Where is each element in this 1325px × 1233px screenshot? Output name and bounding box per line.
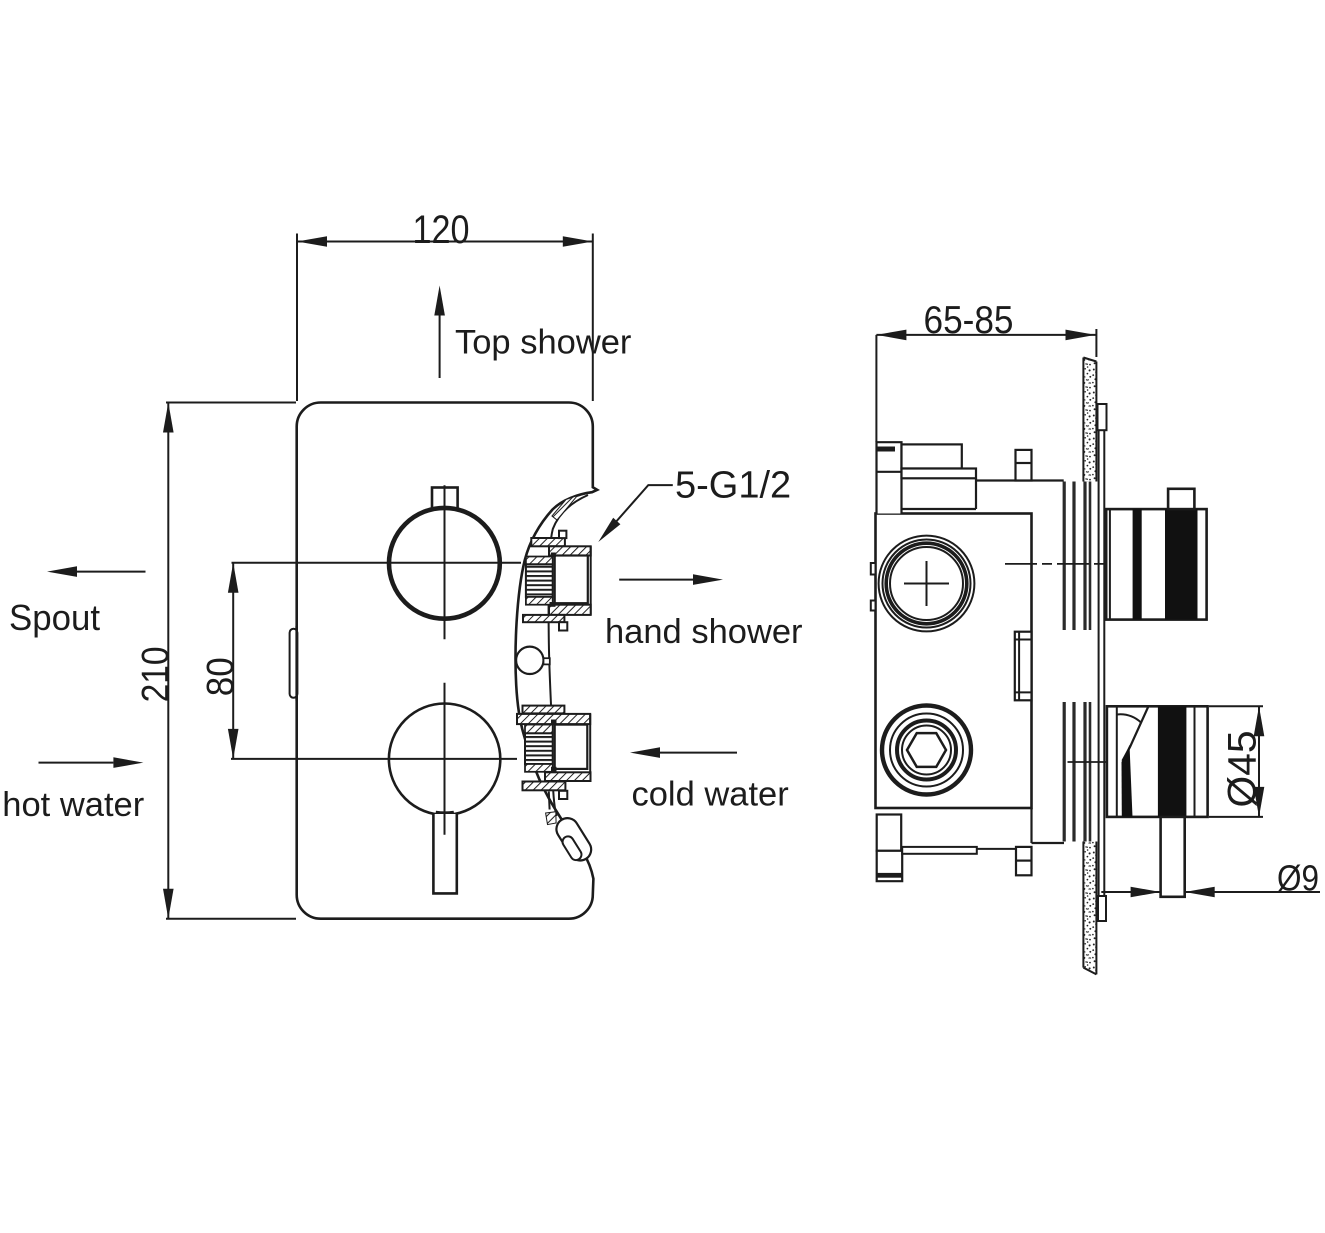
section hatch patch top [552, 496, 578, 521]
front trim plate outline [297, 403, 598, 919]
label cold water with arrow [630, 747, 789, 813]
dimension 65-85 [876, 299, 1096, 442]
valve body [876, 514, 1032, 809]
top knob crosshair [444, 485, 446, 639]
bottom handle centerline [1068, 761, 1118, 763]
svg-text:cold water: cold water [632, 776, 789, 814]
label Top shower with arrow [434, 286, 631, 379]
label 5-G1/2 with leader [598, 465, 791, 543]
svg-text:120: 120 [413, 208, 470, 252]
svg-text:Ø45: Ø45 [1221, 731, 1265, 808]
label Spout with arrow [9, 566, 146, 638]
mounting flange section lines upper [1064, 482, 1090, 631]
dimension D45 [1209, 706, 1265, 817]
dimension 80 [200, 563, 521, 759]
top port circle with cross [871, 536, 975, 632]
spout outlet lobe [546, 812, 596, 865]
label hand shower with arrow [605, 574, 803, 651]
svg-text:65-85: 65-85 [924, 299, 1014, 342]
top fittings [877, 442, 1064, 513]
top knob circle [389, 508, 500, 619]
bottom knob circle [389, 704, 500, 815]
svg-text:Spout: Spout [9, 597, 100, 638]
dimension 120 [297, 208, 593, 401]
svg-text:Top shower: Top shower [455, 324, 631, 362]
svg-text:Ø9: Ø9 [1277, 858, 1319, 899]
label hot water with arrow [2, 757, 144, 824]
cold water port [517, 706, 591, 810]
side stub between circles [1015, 632, 1032, 701]
svg-text:80: 80 [200, 657, 242, 696]
svg-text:hot water: hot water [2, 786, 144, 824]
svg-text:5-G1/2: 5-G1/2 [675, 465, 791, 507]
dimension 210 [135, 403, 296, 919]
bottom hex plug circle [882, 706, 971, 795]
dimension D9 [1101, 858, 1320, 899]
wall lower segment [1083, 842, 1096, 975]
wall upper segment [1083, 358, 1096, 482]
mounting flange section lines lower [1064, 702, 1090, 842]
bottom handle [1107, 706, 1208, 817]
bottom knob crosshair [444, 683, 446, 835]
section inner curve [549, 495, 588, 816]
screw hole [516, 647, 550, 674]
left edge tab [290, 626, 298, 701]
top handle [1106, 489, 1206, 620]
escutcheon plate behind wall [1098, 404, 1107, 922]
top knob stem [432, 488, 458, 509]
svg-text:210: 210 [135, 646, 177, 702]
svg-text:hand shower: hand shower [605, 613, 803, 651]
top handle centerline [1005, 563, 1151, 565]
bottom knob handle [433, 812, 456, 893]
bottom fittings [877, 808, 1064, 881]
handle stem [1161, 817, 1185, 897]
hand shower port [523, 531, 591, 631]
